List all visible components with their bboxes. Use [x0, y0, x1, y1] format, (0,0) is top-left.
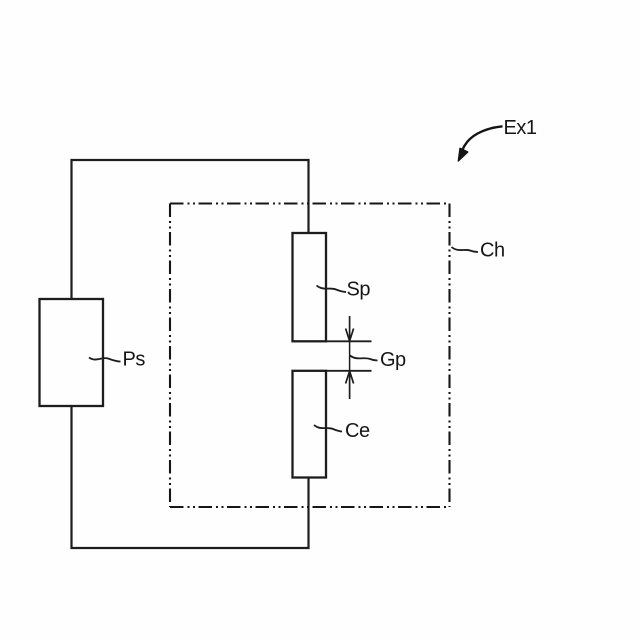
- electrode Sp: [293, 233, 327, 341]
- svg-text:Gp: Gp: [380, 349, 406, 371]
- leader to Gp: [350, 356, 378, 361]
- electrode Ce: [293, 371, 327, 478]
- svg-text:Sp: Sp: [347, 279, 371, 301]
- svg-text:Ch: Ch: [480, 240, 505, 262]
- extension line at Ce top: [326, 370, 372, 372]
- svg-text:Ex1: Ex1: [504, 117, 537, 139]
- svg-text:Ce: Ce: [345, 420, 370, 442]
- leader to Ce: [314, 425, 342, 432]
- gap dimension arrow lower: [346, 371, 354, 399]
- leader to Ps: [89, 358, 121, 362]
- leader to Ch: [452, 247, 479, 252]
- arrow Ex1: [462, 126, 503, 151]
- gap dimension arrow upper: [346, 316, 354, 341]
- wire: [72, 406, 309, 548]
- leader to Sp: [317, 286, 347, 293]
- chamber Ch dash-dot-dot box: [170, 204, 450, 508]
- extension line at Sp bottom: [326, 340, 372, 342]
- power source Ps: [40, 299, 104, 406]
- gap dimension connector: [349, 341, 351, 371]
- wire: [72, 160, 309, 299]
- svg-text:Ps: Ps: [123, 349, 146, 371]
